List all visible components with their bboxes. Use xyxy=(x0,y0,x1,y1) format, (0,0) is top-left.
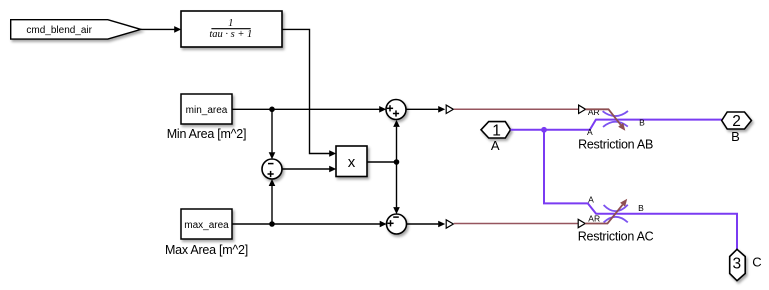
wire max_area to sum S3 xyxy=(233,221,387,228)
sum block S3 (plus west, minus north) xyxy=(387,214,407,234)
wire product output with split xyxy=(367,161,397,163)
physical connection to Restriction AC xyxy=(544,130,737,250)
inport tag cmd_blend_air xyxy=(11,20,141,39)
svg-text:1: 1 xyxy=(228,18,233,29)
svg-text:min_area: min_area xyxy=(186,105,228,116)
wire sum S3 output xyxy=(407,221,446,228)
constant block min_area xyxy=(181,94,232,124)
wire tag to transfer fcn xyxy=(141,26,181,33)
svg-text:A: A xyxy=(587,127,593,137)
Restriction AB block icon xyxy=(579,105,645,137)
junction dot on max_area wire xyxy=(269,221,275,227)
svg-text:cmd_blend_air: cmd_blend_air xyxy=(26,25,92,36)
svg-text:max_area: max_area xyxy=(184,220,229,231)
svg-text:Min Area [m^2]: Min Area [m^2] xyxy=(167,127,246,141)
svg-text:Restriction AB: Restriction AB xyxy=(578,138,653,152)
svg-text:1: 1 xyxy=(492,123,501,140)
junction dot on product output xyxy=(394,159,400,165)
port 2 hexagon B xyxy=(722,112,752,129)
control signal arrow AB xyxy=(586,109,621,125)
port 3 hexagon C xyxy=(730,249,746,280)
svg-text:B: B xyxy=(731,129,740,144)
control signal arrow AC xyxy=(585,205,622,224)
svg-text:tau · s + 1: tau · s + 1 xyxy=(209,29,252,40)
svg-text:A: A xyxy=(491,138,500,153)
wire sum S2 to product input 2 xyxy=(282,166,336,173)
wire down to sum S3 xyxy=(393,162,400,214)
physical signal wire to Restriction AC xyxy=(454,223,578,225)
port 1 hexagon A xyxy=(481,122,511,138)
wire min_area to sum S1 xyxy=(233,106,387,113)
Restriction AC block icon xyxy=(578,195,644,228)
svg-text:A: A xyxy=(588,195,594,205)
wire transfer fcn to product input 1 xyxy=(282,29,336,156)
constant block max_area xyxy=(181,209,232,239)
svg-text:B: B xyxy=(638,203,644,213)
svg-text:3: 3 xyxy=(732,256,741,273)
wire branch up to sum S2 xyxy=(269,179,276,224)
wire sum S1 output xyxy=(406,106,445,113)
svg-text:AR: AR xyxy=(588,107,600,117)
restriction arcs AC xyxy=(604,205,628,211)
PS converter triangle bottom xyxy=(446,220,453,228)
svg-text:AR: AR xyxy=(588,213,600,223)
svg-text:x: x xyxy=(348,154,356,171)
sum block S2 (minus top, plus bottom) xyxy=(262,159,282,179)
svg-text:Max Area [m^2]: Max Area [m^2] xyxy=(165,243,248,257)
svg-text:C: C xyxy=(752,254,761,269)
PS converter triangle top xyxy=(446,105,453,113)
AR port triangle AC xyxy=(578,219,585,227)
restriction arcs AB xyxy=(603,111,628,116)
transfer function block U1 1/(tau*s+1) xyxy=(181,11,282,47)
physical signal wire to Restriction AB xyxy=(454,108,579,110)
AR port triangle AB xyxy=(579,105,586,113)
product block x xyxy=(336,146,367,177)
svg-text:2: 2 xyxy=(732,113,741,130)
purple junction dot xyxy=(541,127,547,133)
svg-text:Restriction AC: Restriction AC xyxy=(578,229,654,243)
svg-text:B: B xyxy=(639,117,645,127)
wire branch down to sum S2 xyxy=(269,109,276,159)
junction dot on min_area wire xyxy=(269,107,275,113)
physical connection A line to restrictions xyxy=(511,120,722,130)
wire up to sum S1 xyxy=(393,120,400,162)
sum block S1 (plus west, plus south) xyxy=(386,100,406,120)
